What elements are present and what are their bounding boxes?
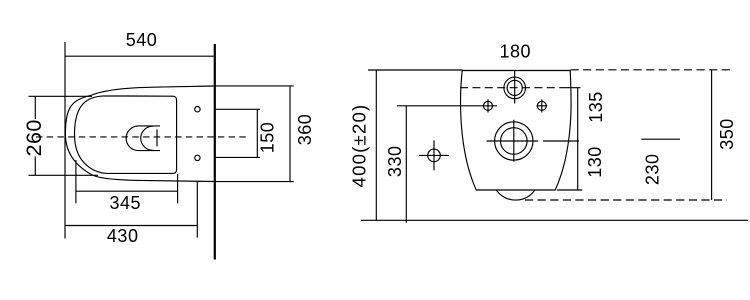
extension drain to dim: [543, 140, 579, 142]
dimension line 260: [34, 96, 36, 119]
svg-text:260: 260: [22, 119, 46, 156]
extension 430 right: [196, 182, 198, 238]
drain circle inner: [501, 128, 528, 155]
dimension line 360: [289, 86, 291, 182]
body outline: [461, 71, 572, 191]
bowl bottom arc: [497, 190, 535, 200]
svg-text:180: 180: [500, 41, 532, 61]
svg-text:350: 350: [717, 118, 737, 150]
extension 345 left: [75, 160, 77, 203]
svg-text:345: 345: [110, 193, 142, 213]
dimension line 330: [405, 106, 407, 223]
dimension line 540: [65, 55, 214, 57]
extension 360 bottom: [216, 181, 294, 183]
fixing hole right horizontal: [537, 105, 548, 107]
fixing hole left: [484, 101, 493, 110]
svg-text:230: 230: [643, 154, 663, 186]
wire: [29, 95, 93, 97]
top dashed level line: [571, 69, 734, 71]
svg-text:360: 360: [295, 114, 315, 146]
inlet dashed centerline: [460, 87, 562, 89]
extension 150 top: [216, 108, 260, 110]
wire: [34, 157, 36, 176]
floor line: [361, 219, 748, 221]
extension body bottom: [557, 189, 582, 191]
extension 360 top: [216, 85, 294, 87]
wall line: [214, 44, 216, 260]
hole left-view top: [195, 107, 200, 112]
svg-text:150: 150: [257, 122, 277, 154]
extension 345 right: [177, 174, 179, 203]
drain inner arc: [141, 126, 153, 150]
outside hole vertical: [433, 140, 435, 170]
extension line left (540/430): [64, 42, 66, 239]
drain outer: [126, 126, 160, 151]
dimension line 430: [65, 225, 198, 227]
svg-text:135: 135: [586, 91, 606, 123]
dimension line 150: [256, 109, 258, 157]
outside hole circle: [428, 149, 441, 162]
svg-text:330: 330: [385, 146, 405, 178]
fixing hole right vertical: [541, 99, 543, 112]
fixing hole left vertical: [487, 99, 489, 112]
svg-text:540: 540: [126, 30, 158, 50]
frame left edge / dim 400: [375, 70, 377, 220]
drain cross horizontal: [487, 140, 539, 142]
drain cross vertical: [513, 120, 515, 162]
fixing hole right: [537, 101, 546, 110]
svg-text:430: 430: [107, 226, 139, 246]
centerline dashed: [36, 136, 246, 138]
wire: [29, 174, 99, 176]
inlet circle inner: [507, 80, 522, 95]
dimension line 135/130: [577, 88, 579, 190]
drain tick: [156, 129, 158, 146]
outside hole horizontal: [419, 154, 449, 156]
bottom dashed level line: [525, 199, 727, 201]
dimension line 345: [76, 190, 178, 192]
svg-text:400(±20): 400(±20): [349, 104, 370, 188]
inlet circle outer: [504, 77, 526, 99]
dimension line 350: [711, 70, 713, 200]
svg-text:130: 130: [585, 146, 605, 178]
inlet vertical centerline: [514, 71, 516, 104]
hole left-view bottom: [195, 155, 200, 160]
extension line to fixing holes: [397, 105, 497, 107]
frame top line: [368, 69, 463, 71]
wire: [562, 87, 581, 89]
tick line 230: [641, 138, 680, 140]
seat inner outline: [75, 96, 177, 173]
extension 150 bottom: [216, 156, 260, 158]
drain circle outer: [495, 122, 533, 160]
bowl outer outline: [65, 86, 213, 182]
